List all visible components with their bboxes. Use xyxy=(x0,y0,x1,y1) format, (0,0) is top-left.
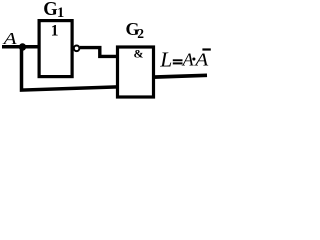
svg-text:1: 1 xyxy=(57,5,64,21)
inverter G1 body xyxy=(39,21,72,77)
wire branch down from junction and bottom run to G2 lower input xyxy=(22,47,119,90)
svg-text:G: G xyxy=(43,0,58,20)
AND gate G2 body xyxy=(118,47,154,97)
inverter G1 output bubble xyxy=(74,46,80,52)
overbar of A in output label xyxy=(202,48,210,50)
svg-text:L: L xyxy=(159,47,172,71)
wire input A horizontal xyxy=(2,45,40,49)
wire from bubble stepping down to G2 upper input xyxy=(80,48,118,57)
svg-text:1: 1 xyxy=(51,22,59,39)
svg-text:&: & xyxy=(134,47,144,61)
junction dot on node A xyxy=(19,43,26,50)
wire output of G2 xyxy=(153,75,207,77)
svg-text:2: 2 xyxy=(137,26,144,41)
svg-text:A: A xyxy=(194,49,209,69)
